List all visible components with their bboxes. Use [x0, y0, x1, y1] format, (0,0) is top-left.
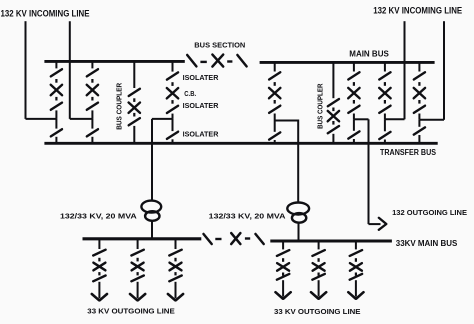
wire: bay R1 down to junction	[274, 114, 276, 121]
label ISOLATER (middle)	[183, 101, 219, 110]
wire: feeder R-a stub from 33kV bus	[282, 241, 284, 249]
33kV bus section breaker	[231, 233, 240, 244]
wire: bay R3 to transfer bus	[384, 140, 386, 144]
isolator (line side) bay R4	[414, 106, 425, 113]
arrow: feeder R-c outgoing	[348, 292, 363, 298]
isolator (bus side) feeder R-c	[350, 250, 362, 256]
transformer T2 secondary winding	[292, 213, 306, 223]
wire: bay R3 junction to transfer isolator	[384, 119, 386, 131]
circuit breaker bus coupler right	[328, 111, 339, 121]
wire: bay L3 link dash 1	[171, 82, 173, 86]
wire: bay L3 link dash 2	[171, 100, 173, 104]
svg-text:ISOLATER: ISOLATER	[183, 101, 219, 110]
isolator (line side) bay R3	[379, 106, 390, 113]
wire: feeder L-b link dash 1	[137, 258, 139, 262]
132kV main bus left section	[44, 60, 184, 63]
label 132 KV INCOMING LINE (right)	[373, 6, 462, 16]
wire: incoming line D drop	[443, 21, 445, 120]
label BUS SECTION	[194, 41, 245, 50]
label transformer T2 132/33 KV, 20 MVA	[209, 212, 286, 221]
wire: feeder R-b arrow shaft	[318, 280, 320, 296]
isolator (bus side) bay L1	[51, 69, 62, 76]
wire: bay L2 down to junction	[91, 110, 93, 119]
wire: bay R4 stub from main bus	[418, 62, 420, 71]
wire: bay R2 junction to 132 outgoing drop	[354, 118, 369, 120]
wire: bay R1 junction to transfer isolator	[274, 121, 276, 132]
isolator (transfer bus) bay R3	[379, 132, 390, 139]
wire: feeder L-b link dash 2	[137, 272, 139, 275]
transformer T1 secondary winding	[145, 211, 159, 221]
bus section isolator (left blade)	[187, 55, 196, 66]
wire: feeder R-a link dash 2	[282, 273, 284, 276]
label TRANSFER BUS	[380, 148, 436, 157]
label 132 KV INCOMING LINE (left)	[1, 8, 90, 18]
isolator (lower) bus coupler left	[129, 118, 140, 125]
arrow: feeder L-b outgoing	[130, 294, 145, 300]
wire: feeder R-a arrow shaft	[282, 280, 284, 296]
isolator (bus side) bay R3	[379, 72, 390, 79]
isolator (upper) bus coupler right	[328, 99, 339, 106]
label MAIN BUS	[349, 48, 389, 58]
wire: bay L3 junction to transformer T1	[152, 118, 173, 120]
wire: feeder L-c link dash 2	[174, 272, 176, 275]
isolator (bus side) feeder R-b	[312, 250, 324, 256]
wire: 132 outgoing horizontal run	[369, 223, 381, 225]
isolator (bus side) bay R2	[348, 72, 359, 79]
circuit breaker feeder R-c	[350, 263, 362, 271]
wire: feeder R-b link dash 2	[318, 273, 320, 276]
wire: bay R3 link dash 2	[384, 100, 386, 104]
wire: feeder R-c link dash 2	[355, 273, 357, 276]
wire: 33kV bus section dash left	[215, 238, 221, 240]
wire: bus section dash left	[200, 61, 206, 63]
label 132 OUTGOING LINE	[392, 208, 467, 217]
wire: incoming line D to bay R4 junction	[419, 119, 444, 121]
wire: bay L2 link dash 1	[91, 79, 93, 83]
wire: bus section dash right	[227, 60, 232, 62]
isolator (transfer bus) bay L1	[51, 129, 62, 136]
circuit breaker feeder L-a	[93, 263, 105, 271]
wire: bay L1 down to junction	[55, 110, 57, 119]
isolator (line side) feeder R-a	[277, 274, 289, 280]
wire: feeder R-c arrow shaft	[355, 280, 357, 296]
isolator (bus side) feeder R-a	[277, 250, 289, 256]
wire: bay R2 link dash 2	[353, 100, 355, 104]
wire: bay R3 stub from main bus	[384, 62, 386, 71]
wire: bay R2 junction to transfer isolator	[353, 119, 355, 131]
svg-text:ISOLATER: ISOLATER	[183, 73, 219, 82]
wire: bay L2 link dash 2	[91, 97, 93, 101]
isolator (transfer bus) bay R2	[348, 131, 359, 138]
wire: bay R1 to transfer bus	[274, 140, 276, 143]
svg-text:ISOLATER: ISOLATER	[183, 130, 219, 139]
svg-text:C.B.: C.B.	[184, 89, 196, 98]
isolator (transfer bus) bay L2	[87, 129, 98, 136]
svg-text:MAIN BUS: MAIN BUS	[349, 48, 389, 58]
wire: bay R4 junction to transfer isolator	[418, 120, 420, 127]
33kV main bus left section	[83, 237, 202, 240]
wire: bay R4 link dash 2	[418, 100, 420, 104]
svg-text:TRANSFER BUS: TRANSFER BUS	[380, 148, 436, 157]
wire: bus coupler left link dash 1	[133, 98, 135, 102]
wire: bay L3 junction to transfer isolator	[172, 119, 174, 131]
circuit breaker feeder L-c	[170, 263, 182, 271]
label BUS COUPLER (right, rotated)	[317, 83, 324, 128]
wire: bay R4 link dash 1	[418, 82, 420, 86]
circuit breaker bay R1	[269, 88, 280, 98]
wire: transformer T1 LV lead	[151, 220, 153, 238]
wire: bus coupler right to transfer bus	[332, 134, 334, 144]
svg-text:BUS SECTION: BUS SECTION	[194, 41, 245, 50]
isolator (line side) bay L1	[51, 103, 62, 110]
wire: bay R2 stub from main bus	[353, 62, 355, 71]
wire: bay L3 stub from main bus	[172, 61, 174, 71]
isolator (line side) feeder R-b	[312, 274, 324, 280]
label 33KV MAIN BUS	[396, 238, 458, 248]
wire: feeder R-b link dash 1	[318, 258, 320, 262]
label ISOLATER (lower)	[183, 130, 219, 139]
isolator (transfer bus) bay R4	[414, 127, 425, 134]
wire: bay L3 to transfer bus	[172, 139, 174, 143]
wire: feeder R-c link dash 1	[355, 258, 357, 262]
wire: bay R4 down to junction	[418, 114, 420, 120]
wire: bay R1 link dash 2	[274, 100, 276, 104]
arrow: feeder R-a outgoing	[276, 292, 291, 298]
wire: bay L1 to transfer bus	[55, 137, 57, 144]
arrow: feeder L-a outgoing	[92, 294, 107, 300]
bus section breaker	[212, 55, 223, 67]
isolator (bus side) feeder L-a	[93, 250, 105, 256]
wire: bay L1 stub from main bus	[55, 61, 57, 68]
33kV main bus right section	[270, 239, 392, 242]
wire: feeder L-a link dash 2	[98, 272, 100, 275]
circuit breaker bay R4	[414, 88, 425, 98]
wire: bay L1 link dash 1	[55, 79, 57, 83]
wire: bay R1 stub from main bus	[274, 62, 276, 71]
wire: feeder R-c stub from 33kV bus	[355, 241, 357, 249]
label 33 KV OUTGOING LINE (left)	[87, 306, 175, 315]
wire: feeder L-c arrow shaft	[175, 282, 177, 299]
wire: bus coupler left link dash 2	[133, 113, 135, 117]
isolator (bus side) feeder L-b	[131, 250, 143, 256]
circuit breaker feeder R-a	[277, 263, 289, 271]
isolator (bus side) feeder L-c	[169, 250, 181, 256]
isolator (bus side) bay R1	[269, 72, 280, 79]
wire: feeder R-b stub from 33kV bus	[318, 241, 320, 249]
isolator (line side) feeder L-a	[93, 276, 105, 282]
label ISOLATER (upper)	[183, 73, 219, 82]
isolator (line side) bay L3	[167, 106, 178, 113]
wire: incoming line B to bay L2 junction	[70, 118, 93, 120]
wire: feeder L-b arrow shaft	[137, 282, 139, 299]
svg-text:132 KV INCOMING LINE: 132 KV INCOMING LINE	[1, 8, 90, 18]
circuit breaker bay L1	[51, 85, 62, 95]
circuit breaker feeder R-b	[313, 263, 325, 271]
wire: incoming line A drop	[25, 21, 27, 119]
33kV bus section isolator (left blade)	[204, 234, 212, 244]
wire: 33kV bus section dash right	[245, 237, 250, 239]
wire: incoming line A to bay L1 junction	[26, 118, 57, 120]
wire: feeder L-c link dash 1	[174, 258, 176, 262]
circuit breaker bay L3	[167, 88, 178, 98]
label transformer T1 132/33 KV, 20 MVA	[60, 212, 137, 221]
wire: bay R4 to transfer bus	[418, 135, 420, 143]
wire: bay R3 down to junction	[384, 114, 386, 120]
isolator (bus side) bay L2	[87, 69, 98, 76]
isolator (bus side) bay R4	[414, 72, 425, 79]
svg-text:132 KV INCOMING LINE: 132 KV INCOMING LINE	[373, 6, 462, 16]
wire: bay L2 junction to transfer isolator	[91, 119, 93, 129]
circuit breaker bay L2	[87, 85, 98, 95]
isolator (transfer bus) bay R1	[269, 132, 280, 139]
label C.B.	[184, 89, 196, 98]
wire: bay R1 junction to transformer T2	[275, 120, 299, 122]
arrow: feeder R-b outgoing	[311, 292, 326, 298]
wire: bus coupler right link dash 1	[332, 108, 334, 112]
svg-text:132/33 KV, 20 MVA: 132/33 KV, 20 MVA	[209, 212, 286, 221]
circuit breaker feeder L-b	[132, 263, 144, 271]
wire: transformer T2 HV lead (crosses transfer bus)	[297, 120, 299, 203]
wire: bay L1 link dash 2	[55, 97, 57, 101]
wire: bus coupler left to transfer bus	[133, 126, 135, 143]
svg-text:BUS COUPLER: BUS COUPLER	[117, 83, 124, 130]
circuit breaker bay R2	[348, 88, 359, 98]
wire: feeder L-a stub from 33kV bus	[98, 239, 100, 249]
transformer T2 primary winding	[287, 203, 309, 215]
132kV transfer bus	[44, 142, 437, 145]
circuit breaker bus coupler left	[129, 103, 140, 113]
isolator (line side) feeder L-b	[131, 276, 143, 282]
wire: transformer T1 HV lead (crosses transfer bus)	[151, 119, 153, 201]
wire: transformer T2 LV lead	[298, 223, 300, 241]
wire: feeder L-b stub from 33kV bus	[137, 239, 139, 249]
wire: bay R2 down to junction	[353, 114, 355, 120]
wire: bus coupler left stub from main bus	[133, 61, 135, 88]
bus section isolator (right blade)	[237, 55, 246, 66]
svg-text:BUS COUPLER: BUS COUPLER	[317, 83, 324, 128]
isolator (line side) bay L2	[87, 103, 98, 110]
wire: feeder L-c stub from 33kV bus	[175, 239, 177, 249]
isolator (line side) feeder R-c	[350, 274, 362, 280]
isolator (line side) bay R2	[348, 106, 359, 113]
wire: 132 outgoing drop (crosses transfer bus)	[368, 119, 370, 224]
wire: feeder L-a arrow shaft	[98, 282, 100, 299]
wire: incoming line B drop (crosses main bus)	[69, 21, 71, 119]
wire: feeder L-a link dash 1	[98, 258, 100, 262]
wire: bay R1 link dash 1	[274, 82, 276, 86]
svg-text:132/33 KV, 20 MVA: 132/33 KV, 20 MVA	[60, 212, 137, 221]
label 33 KV OUTGOING LINE (right)	[274, 307, 361, 316]
wire: bus coupler right stub from main bus	[332, 62, 334, 98]
wire: bay R3 link dash 1	[384, 82, 386, 86]
wire: bus coupler right link dash 2	[332, 121, 334, 125]
wire: bay L2 stub from main bus	[91, 61, 93, 68]
isolator (bus side) bay L3	[167, 72, 178, 79]
wire: incoming line C drop (crosses main bus)	[404, 21, 406, 119]
isolator (upper) bus coupler left	[129, 89, 140, 96]
wire: bay L3 down to junction	[172, 114, 174, 119]
isolator (transfer bus) bay L3	[167, 132, 178, 139]
arrow: feeder L-c outgoing	[168, 294, 183, 300]
isolator (lower) bus coupler right	[328, 126, 339, 133]
svg-text:33KV MAIN BUS: 33KV MAIN BUS	[396, 238, 458, 248]
svg-text:33 KV OUTGOING LINE: 33 KV OUTGOING LINE	[274, 307, 361, 316]
transformer T1 primary winding	[141, 201, 161, 213]
wire: bay R2 link dash 1	[353, 82, 355, 86]
33kV bus section isolator (right blade)	[256, 234, 264, 244]
wire: feeder R-a link dash 1	[282, 258, 284, 262]
132kV main bus right section	[260, 61, 435, 64]
label BUS COUPLER (left, rotated)	[117, 83, 124, 130]
circuit breaker bay R3	[379, 88, 390, 98]
wire: bay L2 to transfer bus	[91, 137, 93, 144]
svg-text:33 KV OUTGOING LINE: 33 KV OUTGOING LINE	[87, 306, 175, 315]
isolator (line side) bay R1	[269, 106, 280, 113]
wire: incoming line C to bay R3 junction	[385, 118, 405, 120]
isolator (line side) feeder L-c	[169, 276, 181, 282]
arrow: 132 outgoing line	[379, 218, 386, 230]
wire: bay L1 junction to transfer isolator	[55, 119, 57, 129]
wire: bay R2 to transfer bus	[353, 139, 355, 143]
svg-text:132 OUTGOING LINE: 132 OUTGOING LINE	[392, 208, 467, 217]
